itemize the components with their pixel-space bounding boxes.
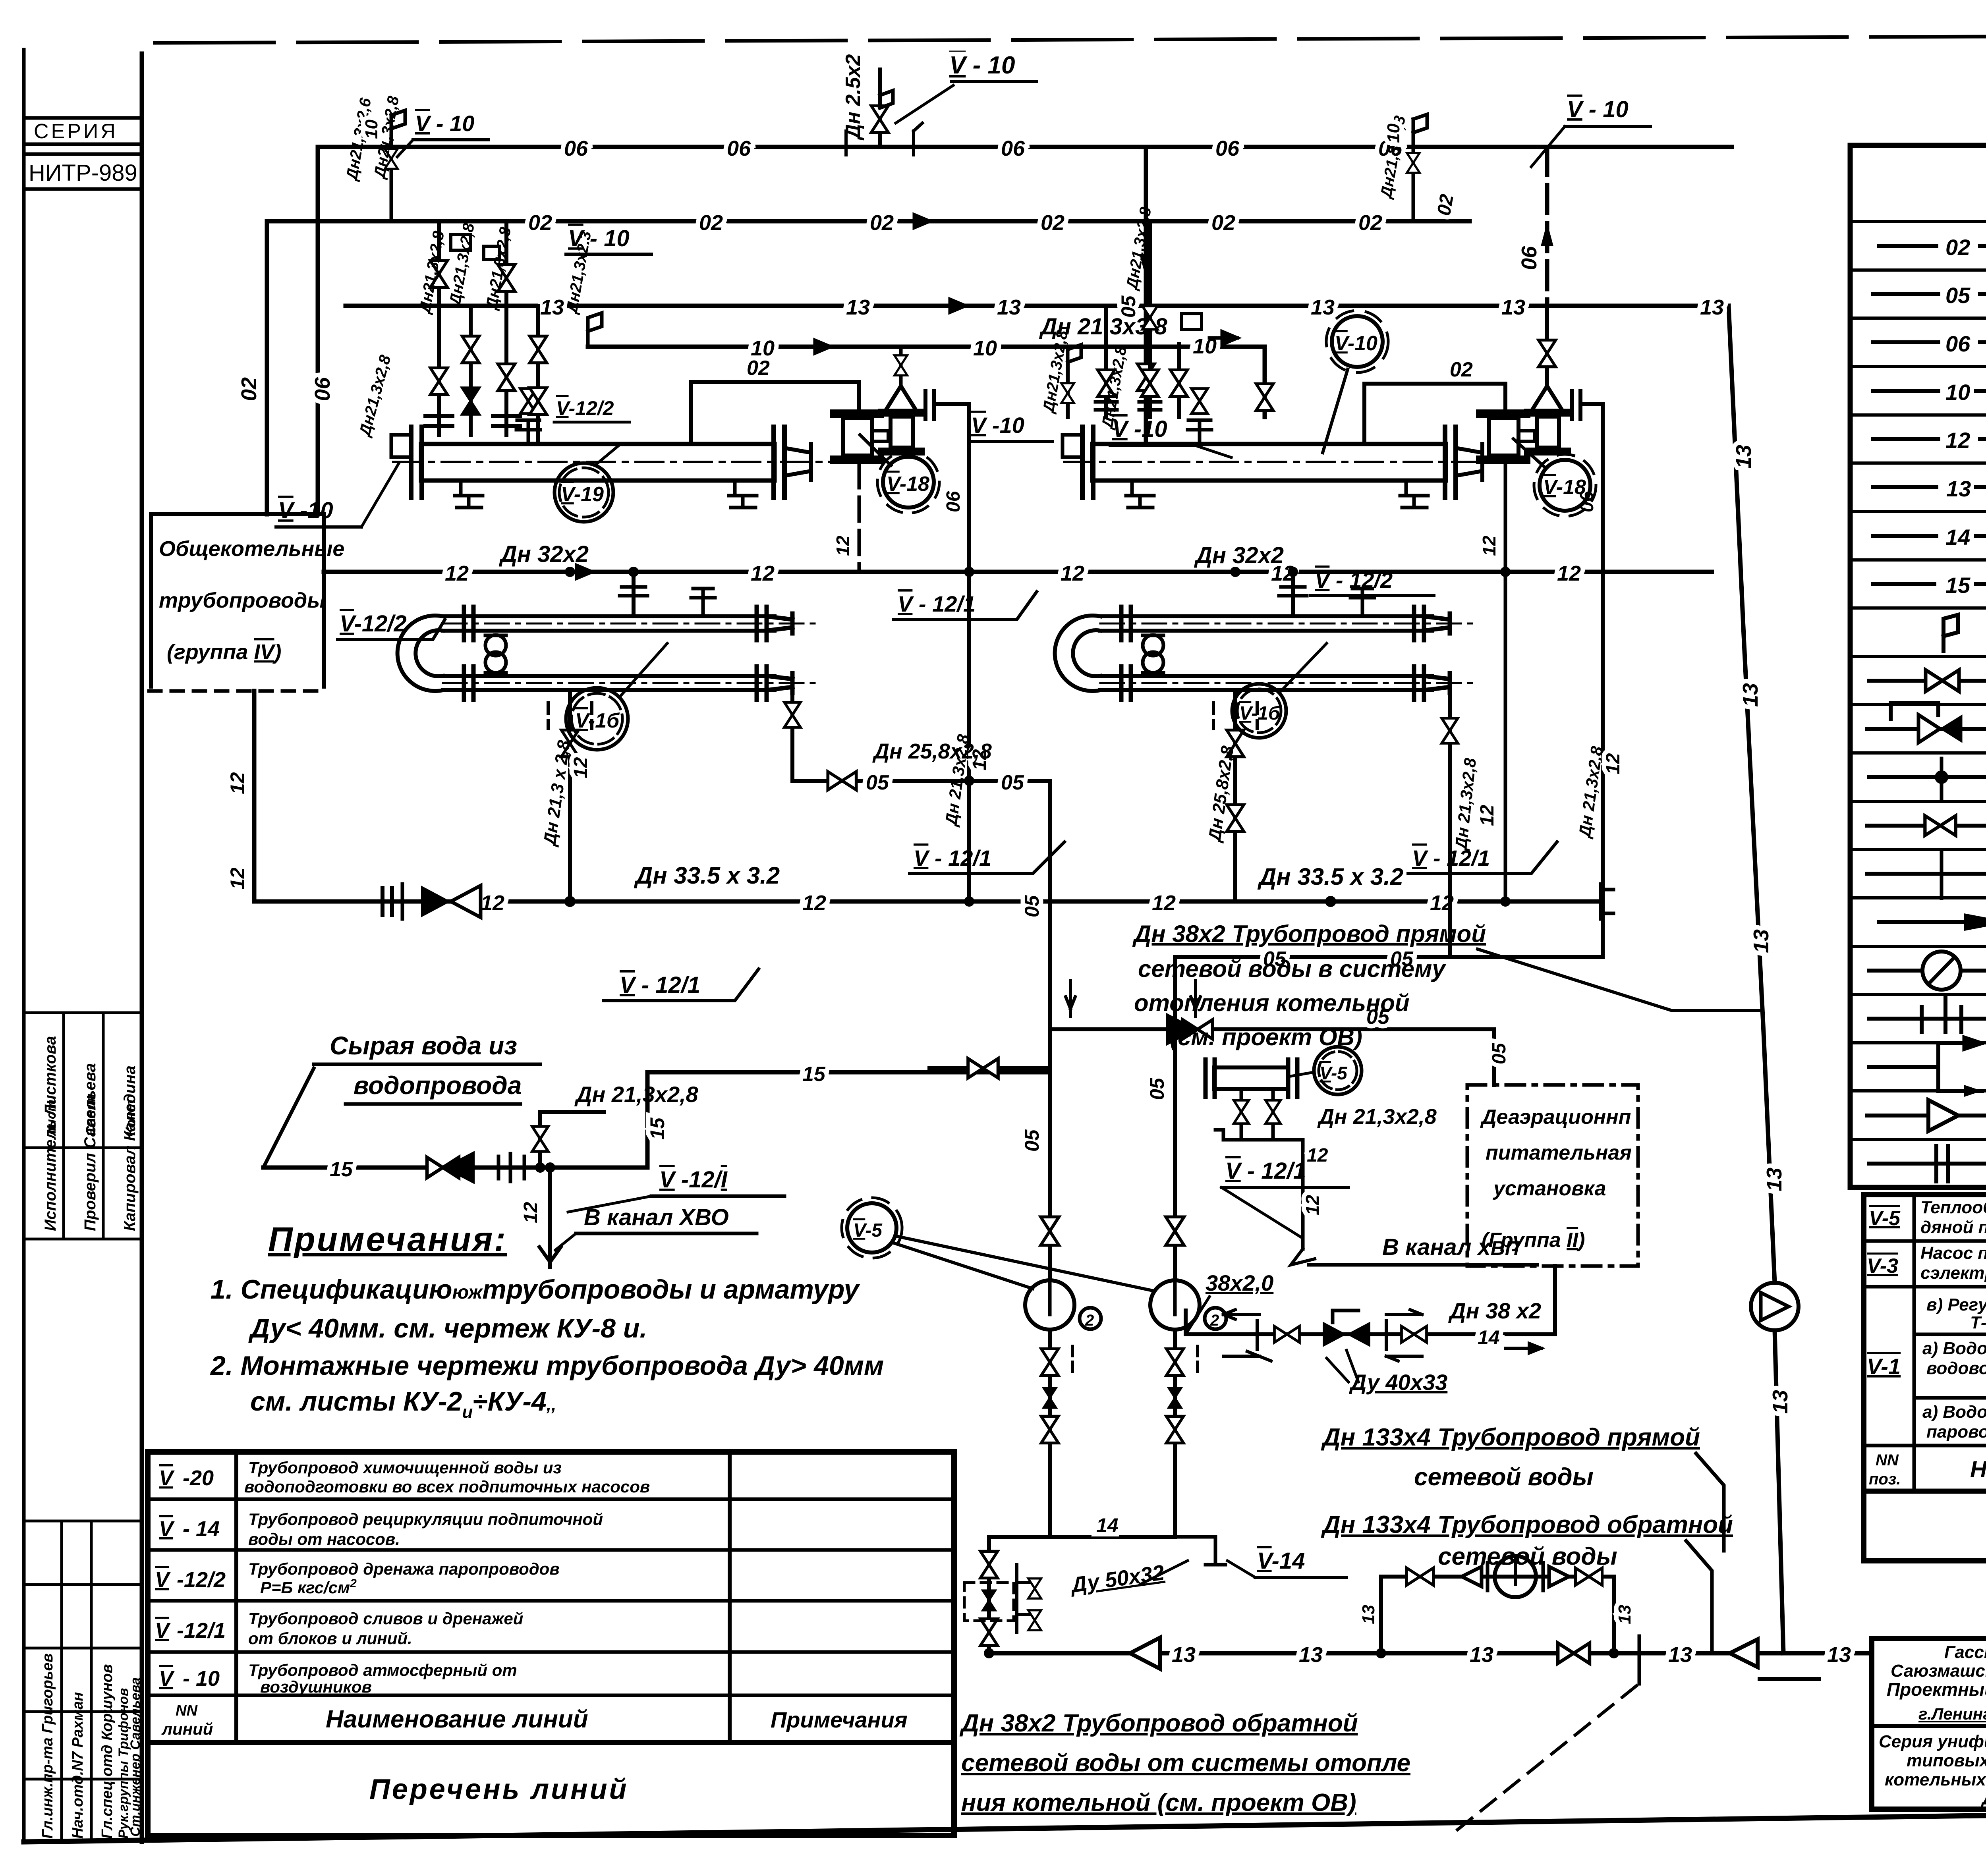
svg-text:05: 05	[1146, 1077, 1168, 1100]
svg-text:15: 15	[646, 1117, 668, 1140]
transition left	[1130, 1638, 1160, 1669]
top tube feed from 12 header right	[1291, 572, 1295, 616]
valves on discharge stack 2	[1166, 1349, 1183, 1375]
vent riser	[878, 69, 882, 147]
svg-text:водоводяной МВН 2052-32: водоводяной МВН 2052-32	[1926, 1359, 1986, 1378]
svg-text:13: 13	[1946, 476, 1971, 501]
svg-text:Сырая вода из: Сырая вода из	[330, 1031, 517, 1060]
svg-text:Т-22-1: Т-22-1	[1970, 1313, 1986, 1332]
spool body	[843, 418, 872, 455]
svg-text:Конт: Конт	[123, 1100, 138, 1136]
svg-text:1. Спецификациююжтрубопроводы: 1. Спецификациююжтрубопроводы и арматуру	[211, 1274, 860, 1305]
stem to 13 header	[1545, 301, 1549, 386]
V-5 exchanger small cylinder	[1214, 1067, 1288, 1089]
lower tube	[443, 676, 775, 690]
sym диафрагма	[1869, 969, 1986, 973]
lines table verticals	[234, 1452, 238, 1743]
lines table horizontals	[148, 1499, 954, 1743]
05 run from right bundle	[1175, 687, 1603, 971]
svg-text:Дн 33.5 х 3.2: Дн 33.5 х 3.2	[1257, 863, 1403, 890]
transition right	[1730, 1639, 1758, 1667]
svg-text:14: 14	[1945, 525, 1970, 550]
title texts left	[1879, 1642, 1986, 1808]
svg-text:38х2,0: 38х2,0	[1206, 1270, 1273, 1295]
labels 06 on header	[564, 137, 1403, 160]
svg-text:V: V	[159, 1466, 175, 1490]
sym граница проектирования	[1869, 1065, 1938, 1069]
angle valve flange plates	[882, 413, 921, 452]
V-5 circle left with leaders	[847, 1203, 896, 1253]
svg-text:V - 12/1: V - 12/1	[898, 591, 976, 616]
label V-12/2 at box	[338, 611, 445, 639]
vent bracket lines	[846, 131, 914, 155]
svg-text:12: 12	[751, 562, 775, 585]
left cap flanges	[409, 427, 413, 498]
svg-text:13: 13	[997, 295, 1021, 319]
bracket lines cluster	[1257, 1320, 1386, 1349]
title outer box	[1872, 1639, 1986, 1809]
sym направление потока	[1879, 920, 1986, 924]
small fitting boxes left group	[451, 234, 471, 250]
V-18 block right	[1364, 301, 1624, 957]
small fitting boxes right group	[1182, 314, 1202, 330]
suction risers 05 from exchanger area	[1048, 781, 1052, 1280]
svg-text:V-1б: V-1б	[575, 709, 620, 732]
svg-text:см. листы КУ-2и÷КУ-4,,: см. листы КУ-2и÷КУ-4,,	[250, 1386, 556, 1422]
svg-text:V-5: V-5	[1869, 1207, 1901, 1230]
flow arrows on 10	[802, 340, 830, 353]
svg-text:воздушников: воздушников	[260, 1677, 372, 1696]
svg-text:Наименование: Наименование	[1970, 1457, 1986, 1482]
signature block lower (Гл.инж. etc)	[24, 1521, 142, 1842]
svg-text:сетевой воды от системы отопле: сетевой воды от системы отопле	[961, 1749, 1410, 1777]
equip verticals	[1914, 1195, 1986, 1491]
stem valve	[894, 355, 907, 375]
top nozzle valve	[520, 389, 537, 414]
svg-text:02: 02	[1041, 211, 1064, 235]
left nozzle box	[1063, 435, 1082, 457]
pipe 02 header	[267, 219, 1470, 224]
svg-text:02: 02	[528, 211, 552, 235]
spool flange plates	[1480, 414, 1526, 460]
label V-10 right group	[1531, 97, 1650, 167]
svg-text:Дн 32х2: Дн 32х2	[1194, 542, 1284, 568]
svg-text:V-5: V-5	[853, 1220, 883, 1241]
spool flange plates	[834, 414, 880, 460]
svg-text:02: 02	[747, 357, 770, 380]
top tube feed from 12 header	[632, 572, 636, 616]
svg-text:V - 12/1: V - 12/1	[1412, 845, 1490, 870]
svg-text:котельных с котлами: котельных с котлами	[1885, 1770, 1986, 1789]
svg-text:Перечень линий: Перечень линий	[369, 1774, 629, 1805]
svg-text:12: 12	[802, 891, 826, 915]
labels 12 on mid header	[445, 562, 1581, 585]
valve on drop	[784, 703, 801, 728]
lines table header	[161, 1702, 908, 1738]
tick on bottom 12	[401, 884, 404, 919]
svg-text:-12/2: -12/2	[177, 1568, 226, 1592]
svg-text:12: 12	[226, 867, 249, 890]
flange pairs on tubes at left	[464, 607, 473, 700]
svg-text:V-12/2: V-12/2	[340, 611, 407, 637]
02 stub from exchanger top	[1364, 384, 1505, 444]
svg-text:сэлектродвигателем А-42-2: сэлектродвигателем А-42-2	[1920, 1263, 1986, 1283]
junction dot bottom 12	[564, 896, 576, 907]
svg-text:в) Регулятор перелива: в) Регулятор перелива	[1926, 1295, 1986, 1314]
flow arrow on mid 12	[564, 566, 592, 578]
svg-text:NN: NN	[1876, 1451, 1899, 1469]
svg-text:12: 12	[1603, 753, 1624, 774]
circle label V-1б right	[1232, 684, 1286, 738]
equip horizontals	[1864, 1241, 1986, 1491]
U-bundle left: upper tube	[398, 616, 775, 691]
supply text Дн38х2 прямой	[1132, 921, 1486, 1050]
svg-text:13: 13	[1359, 1605, 1378, 1624]
svg-text:поз.: поз.	[1869, 1471, 1901, 1488]
valve on 05 run	[828, 772, 856, 790]
boundary symbol right end of 12	[1601, 884, 1613, 919]
svg-text:г.Ленинград 197Чг.: г.Ленинград 197Чг.	[1918, 1704, 1986, 1723]
svg-text:V-18: V-18	[1543, 476, 1586, 499]
svg-text:13: 13	[1615, 1605, 1634, 1624]
sym паворотная фланцевая заглушка	[1869, 1017, 1986, 1021]
sym переход	[1867, 1114, 1986, 1117]
arrows around cluster	[1223, 1310, 1259, 1319]
junction dots	[964, 567, 974, 577]
left group flanges	[425, 416, 452, 426]
V-14 stub and label	[1175, 1537, 1225, 1565]
dashed leader from stub	[1454, 1686, 1636, 1833]
svg-text:Теплообменник водо-: Теплообменник водо-	[1920, 1198, 1986, 1217]
rotated labels right group	[1039, 206, 1155, 431]
svg-text:V - 10: V - 10	[949, 52, 1015, 79]
svg-text:V - 12/1: V - 12/1	[620, 972, 700, 998]
bottom nozzle left	[455, 481, 483, 508]
svg-text:ния котельной (см. проект ОВ): ния котельной (см. проект ОВ)	[961, 1789, 1356, 1816]
svg-text:V-12/2: V-12/2	[556, 397, 614, 419]
label Ду 40х33	[1327, 1350, 1447, 1395]
svg-text:15: 15	[802, 1063, 826, 1086]
angle valve on top tube right	[1350, 589, 1374, 616]
svg-text:V-19: V-19	[561, 483, 604, 506]
sym регулятор	[1867, 727, 1986, 731]
svg-text:V-5: V-5	[1319, 1063, 1348, 1083]
svg-text:Проверил Савельева: Проверил Савельева	[81, 1063, 99, 1231]
equip header row	[1869, 1451, 1986, 1488]
svg-text:13: 13	[1768, 1390, 1792, 1414]
svg-text:10: 10	[1384, 124, 1403, 143]
lines table designators	[155, 1466, 226, 1691]
svg-text:02: 02	[1450, 358, 1473, 381]
svg-text:V: V	[155, 1568, 171, 1592]
svg-text:06: 06	[1215, 137, 1240, 160]
lines table names	[244, 1458, 650, 1696]
svg-text:Трубопровод рециркуляции подп: Трубопровод рециркуляции подпиточной	[248, 1510, 603, 1529]
pipe 15 corner up and right	[647, 1072, 1050, 1168]
label V-12/1	[1221, 1158, 1348, 1237]
svg-text:V - 10: V - 10	[415, 111, 474, 136]
bottom nozzle left	[1126, 481, 1154, 508]
svg-text:05: 05	[1021, 895, 1043, 917]
pipe 06 left riser	[316, 147, 320, 514]
circle label V-1б left	[566, 688, 628, 750]
svg-text:13: 13	[1749, 929, 1773, 953]
drain from lower tube	[568, 690, 572, 901]
svg-text:V -10: V -10	[971, 413, 1024, 438]
sym 14	[1873, 534, 1936, 538]
svg-text:Дн 21,3х2,8: Дн 21,3х2,8	[574, 1082, 699, 1107]
svg-text:13: 13	[1762, 1168, 1786, 1191]
drain down from manifold	[1301, 1156, 1305, 1249]
svg-text:типовых проектов: типовых проектов	[1907, 1751, 1986, 1770]
pipe 02 left riser	[265, 221, 269, 514]
box общекотельные трубопроводы	[149, 514, 344, 691]
sym 06	[1873, 340, 1938, 344]
manifold under V-5	[1215, 1130, 1303, 1156]
stub valve left on 05 line	[929, 1066, 1050, 1070]
svg-text:02: 02	[237, 377, 261, 401]
legend row lines	[1850, 222, 1986, 1139]
05 run from left bundle	[784, 687, 1050, 794]
svg-text:12: 12	[1302, 1195, 1323, 1215]
centerline dash-dot	[1064, 461, 1513, 463]
svg-text:трубопроводы: трубопроводы	[159, 589, 325, 612]
junction dot bottom 12 right	[1325, 896, 1336, 907]
return bend fittings	[485, 635, 506, 656]
svg-text:Примечания: Примечания	[771, 1707, 908, 1732]
pipe 12 bottom header	[254, 899, 1601, 904]
discharge stacks below pumps	[989, 1330, 1175, 1653]
svg-text:Нач.отд.N7 Рахман: Нач.отд.N7 Рахман	[70, 1692, 86, 1839]
svg-text:V-14: V-14	[1257, 1548, 1305, 1574]
sym соединение отсутствует	[1867, 872, 1986, 876]
sym 02	[1879, 244, 1936, 248]
vent valve	[871, 106, 888, 132]
svg-text:установка: установка	[1492, 1177, 1606, 1200]
bypass loop with diaphragm	[1381, 1577, 1614, 1653]
valve on return line right	[1558, 1643, 1590, 1663]
pump 2 circle	[1150, 1280, 1200, 1330]
svg-text:Трубопровод атмосферный от: Трубопровод атмосферный от	[248, 1661, 517, 1679]
angle valve top cone	[1533, 386, 1561, 408]
right end flanges + cones upper tube	[757, 607, 792, 700]
svg-text:12: 12	[1945, 428, 1970, 453]
svg-text:15: 15	[330, 1158, 353, 1181]
tube centerlines	[443, 623, 818, 625]
svg-text:10: 10	[362, 120, 381, 139]
svg-text:12: 12	[1152, 891, 1176, 915]
svg-text:сетевой воды: сетевой воды	[1414, 1463, 1594, 1491]
U-bundle right: upper tube	[1055, 616, 1432, 691]
pipe 12 mid header	[324, 570, 1712, 574]
05 horizontal run	[792, 779, 1050, 783]
legend outer box	[1850, 145, 1986, 1187]
pump 1 circle	[1025, 1280, 1074, 1330]
label Дн133х4 прямой	[1321, 1424, 1724, 1551]
pipe 13 header	[346, 304, 1729, 308]
valves below V-5	[1240, 1089, 1243, 1140]
svg-text:13: 13	[1311, 295, 1335, 319]
svg-text:Наименование линий: Наименование линий	[326, 1706, 588, 1733]
svg-text:12: 12	[226, 772, 249, 794]
svg-text:Саюзмашстройпроект: Саюзмашстройпроект	[1891, 1661, 1986, 1681]
svg-text:12: 12	[833, 535, 853, 556]
legend symbols column	[1873, 246, 1986, 584]
circle label V-10 right	[1323, 311, 1388, 453]
label Сырая вода из водопровода	[314, 1031, 540, 1104]
valves on discharge stack 1	[1041, 1349, 1058, 1375]
svg-text:12: 12	[481, 891, 504, 915]
svg-text:Гасстрой СССР: Гасстрой СССР	[1944, 1642, 1986, 1662]
svg-text:сетевой воды в систему: сетевой воды в систему	[1138, 955, 1446, 982]
svg-text:V - 10: V - 10	[568, 226, 630, 251]
stem to 10 header	[899, 347, 903, 386]
svg-text:Дн 38 х2: Дн 38 х2	[1448, 1298, 1541, 1323]
link between spools	[872, 431, 888, 441]
svg-text:15: 15	[1945, 573, 1971, 598]
sym 12	[1873, 437, 1938, 441]
pipe 06 top header	[318, 145, 1732, 149]
valves above pumps	[1041, 1217, 1059, 1245]
pipe 06 right drop	[1545, 147, 1549, 301]
svg-text:V - 12/1: V - 12/1	[1225, 1158, 1306, 1184]
label Ду50х32	[1068, 1561, 1188, 1598]
label V-12/I	[568, 1167, 784, 1212]
emergency valve on bottom 12 (half black)	[421, 886, 451, 917]
svg-text:2: 2	[1085, 1312, 1094, 1329]
right flanges	[1443, 427, 1447, 498]
bottom nozzle right	[1400, 481, 1428, 508]
heat exchanger V-19 left body	[421, 444, 775, 481]
svg-text:Ду< 40мм. см. чертеж КУ-8: Ду< 40мм. см. чертеж КУ-8 и.	[248, 1313, 647, 1343]
svg-text:- 14: - 14	[183, 1517, 220, 1541]
top nozzle with valve stack	[516, 420, 540, 444]
05 line to deaerator	[1050, 1029, 1494, 1085]
svg-text:Проектный институт N1: Проектный институт N1	[1887, 1679, 1986, 1700]
angle valve top cone	[887, 386, 915, 408]
svg-text:Дн 33.5 х 3.2: Дн 33.5 х 3.2	[634, 862, 780, 889]
drain arrows dashed	[548, 703, 592, 729]
svg-text:06: 06	[564, 137, 588, 160]
labels 02 on header	[528, 211, 1382, 235]
svg-text:V: V	[155, 1619, 171, 1642]
angle valve on top tube right	[691, 589, 715, 616]
recirc line 14 between stacks	[1050, 1535, 1175, 1539]
stem valve	[1538, 340, 1555, 367]
equip row V-3	[1867, 1239, 1986, 1290]
svg-text:Савин: Савин	[83, 1094, 99, 1136]
текст Дн38х2 обратной	[959, 1710, 1410, 1816]
valve pair with black half	[427, 1157, 459, 1177]
labels 10 on header	[751, 334, 1217, 360]
svg-text:V-3: V-3	[1867, 1255, 1898, 1278]
svg-text:12: 12	[1479, 535, 1499, 556]
svg-text:13: 13	[1732, 445, 1756, 469]
svg-text:06: 06	[311, 377, 334, 401]
pump (elevator) on long 13 riser	[1751, 1283, 1799, 1330]
label V-10 left of right exchanger	[1110, 416, 1231, 457]
svg-text:02: 02	[699, 211, 723, 235]
svg-text:Общекотельные: Общекотельные	[159, 537, 344, 561]
circle label V-5	[1314, 1047, 1362, 1094]
sym 15	[1873, 582, 1934, 586]
bottom nozzle right	[729, 481, 757, 508]
drain valve	[561, 730, 578, 757]
upper vent riser left	[343, 95, 489, 221]
upper vent riser right	[1377, 114, 1458, 221]
svg-text:СЕРИЯ: СЕРИЯ	[34, 120, 118, 143]
svg-text:от блоков и линий.: от блоков и линий.	[248, 1629, 412, 1648]
side outlet flange	[925, 391, 934, 419]
svg-text:а) Водоподогреватель: а) Водоподогреватель	[1922, 1402, 1986, 1422]
V-18 block left	[691, 347, 1053, 907]
svg-text:14: 14	[1478, 1326, 1500, 1349]
svg-text:воды от насосов.: воды от насосов.	[248, 1530, 400, 1548]
label 38х2,0	[1186, 1270, 1273, 1334]
title horizontals	[1872, 1724, 1986, 1728]
label V-10 right of block	[969, 413, 1053, 442]
svg-text:Дн 25,8х2,8: Дн 25,8х2,8	[872, 739, 992, 763]
junction dots mid 12 header	[565, 567, 575, 577]
diagonal from label to line	[263, 1068, 314, 1168]
side outlet flange	[1572, 391, 1580, 419]
pump 2 motor circle	[1205, 1308, 1226, 1329]
labels 13 on header	[540, 295, 1724, 319]
flow arrow on 02	[902, 215, 929, 228]
svg-text:12: 12	[1061, 562, 1084, 585]
svg-text:Трубопровод дренажа паропрово: Трубопровод дренажа паропроводов	[248, 1559, 560, 1578]
feed line 14 to deaerator	[1186, 1266, 1555, 1395]
valve on 05 line	[1182, 1020, 1213, 1039]
svg-text:02: 02	[1945, 235, 1970, 260]
svg-text:НИТР-989: НИТР-989	[29, 160, 137, 186]
svg-text:V - 10: V - 10	[1567, 97, 1629, 122]
label В канал ХВО 2	[1291, 1234, 1537, 1265]
equip row V-5	[1869, 1197, 1986, 1237]
circle label V-18	[883, 457, 934, 508]
junction dots	[1500, 567, 1511, 577]
labels 13 on return	[1172, 1643, 1851, 1667]
svg-text:V -10: V -10	[278, 498, 333, 523]
svg-text:V-18: V-18	[887, 473, 929, 496]
svg-text:(группа IV): (группа IV)	[167, 640, 281, 664]
svg-text:V -12/I: V -12/I	[659, 1167, 728, 1193]
deaerator dashed box	[1467, 1085, 1638, 1266]
svg-text:Дн 2.5х2: Дн 2.5х2	[842, 54, 865, 141]
svg-text:Серия унифицированных: Серия унифицированных	[1879, 1732, 1986, 1751]
vent flag	[880, 91, 893, 108]
svg-text:05: 05	[866, 771, 889, 794]
signature block upper (Исполнитель/Проверил/Капировал)	[24, 1013, 142, 1239]
svg-text:13: 13	[1739, 683, 1762, 707]
svg-text:Дн 133х4 Трубопровод обратной: Дн 133х4 Трубопровод обратной	[1321, 1511, 1733, 1538]
lines table outer box	[148, 1452, 954, 1835]
drop from left bundle right end	[790, 687, 794, 781]
valves on 14 line	[1275, 1326, 1300, 1343]
svg-text:(Группа II): (Группа II)	[1482, 1229, 1585, 1252]
svg-text:-20: -20	[183, 1466, 214, 1490]
svg-text:14: 14	[1096, 1514, 1119, 1536]
svg-text:13: 13	[846, 295, 870, 319]
svg-text:13: 13	[1668, 1643, 1692, 1667]
svg-text:отопления котельной: отопления котельной	[1134, 990, 1410, 1016]
svg-text:NN: NN	[176, 1702, 198, 1719]
drain down canal	[548, 1168, 552, 1267]
svg-text:пароводяной МВМ 1437-05: пароводяной МВМ 1437-05	[1926, 1422, 1986, 1442]
dashes flow arrows on risers	[1066, 981, 1075, 1017]
leader to 13 riser	[1478, 949, 1760, 1011]
rotated labels left group	[416, 222, 595, 316]
